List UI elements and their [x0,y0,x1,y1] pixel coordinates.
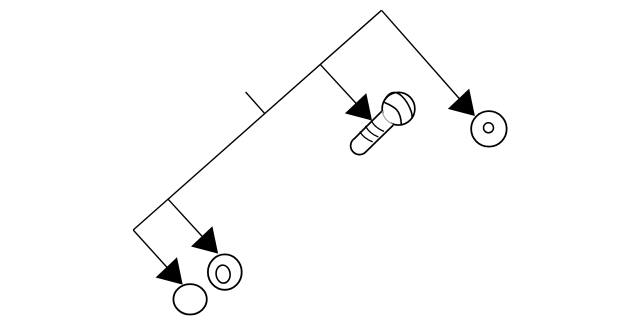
wire: tick stub on main line [246,92,265,113]
wire: branch leader line to bolt arrow [320,64,370,118]
bolt: dome base arc across neck [384,102,401,124]
arrow to bolt [345,93,372,120]
bolt: thread line 2 [365,126,378,137]
bottom washer: inner oval hole [215,264,231,284]
arrow to bottom washer [191,226,218,253]
arrow to right washer [448,89,475,116]
wire: right leader line from apex to washer arrow [382,10,473,113]
bolt: head flange circle [382,92,415,125]
bottom washer: outer circle [208,254,242,289]
arrow to grommet [156,257,183,284]
bolt: dome crown arc on head [384,92,412,117]
wire: branch leader line to grommet arrow [133,230,181,283]
wire: main diagonal leader line from apex to lower-left corner [133,10,381,230]
grommet: plain ellipse [173,284,206,314]
wire: branch leader line to bottom washer arrow [168,199,216,251]
bolt: thread line 3 [360,132,373,142]
right washer: outer circle [471,111,507,147]
bolt: hidden flange edge behind shank (faint) [382,111,392,124]
right washer: inner hole [484,123,494,133]
bolt: thread line 1 [371,120,384,131]
bolt: shank (capsule with rounded cap) [351,111,394,154]
